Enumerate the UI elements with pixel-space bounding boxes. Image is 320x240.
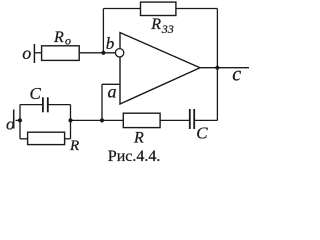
parallel block bottom branch to resistor R1 [20, 138, 28, 140]
svg-text:b: b [106, 34, 115, 53]
wire op-amp input a horizontal [102, 83, 120, 85]
node c junction dot [215, 66, 219, 70]
svg-text:c: c [232, 64, 241, 86]
wire input o to R_o [35, 52, 42, 54]
wire top feedback [103, 8, 217, 10]
RC block right junction dot [68, 118, 72, 122]
parallel block resistor R1 to right vertical [65, 138, 71, 140]
wire a vertical down to bottom rail [101, 84, 103, 120]
node b junction dot [101, 51, 105, 55]
wire op-amp output to c [200, 67, 249, 69]
svg-text:o: o [22, 43, 31, 63]
svg-text:R: R [133, 130, 144, 147]
wire R_o to op-amp input b [79, 52, 115, 54]
wire bottom terminal to RC block [16, 119, 21, 121]
parallel block capacitor C1 to right vertical [48, 104, 70, 106]
wire C to right vertical [195, 119, 218, 121]
op-amp U1 triangle [120, 33, 200, 104]
terminal bar input 1 [33, 44, 35, 63]
op-amp inverting input bubble [115, 49, 123, 57]
wire RC block to R [71, 119, 124, 121]
capacitor C2 plates (bottom right) [190, 109, 194, 129]
terminal bar input 2 [13, 110, 15, 129]
svg-text:R33: R33 [150, 16, 174, 36]
parallel block top branch to capacitor C1 [20, 104, 42, 106]
resistor R33 box [141, 2, 176, 15]
wire R to C [160, 119, 189, 121]
resistor R2 box (bottom) [123, 113, 160, 127]
resistor R1 box (input RC block) [28, 132, 65, 144]
svg-text:R: R [69, 138, 79, 154]
wire right vertical (feedback/output to bottom C) [216, 9, 218, 121]
parallel block left vertical [19, 105, 21, 139]
svg-text:C: C [196, 124, 208, 143]
svg-text:C: C [30, 84, 42, 103]
capacitor C1 plates (input RC block) [43, 97, 48, 112]
wire b vertical (node b to feedback) [102, 9, 104, 53]
parallel block right vertical [70, 105, 72, 139]
svg-text:Рис.4.4.: Рис.4.4. [108, 148, 161, 165]
RC block left junction dot [18, 118, 22, 122]
svg-text:a: a [108, 82, 117, 102]
node a junction dot (bottom rail) [100, 118, 104, 122]
svg-text:o: o [6, 115, 15, 134]
svg-text:Rо: Rо [53, 29, 71, 48]
resistor R_o box [42, 46, 80, 61]
